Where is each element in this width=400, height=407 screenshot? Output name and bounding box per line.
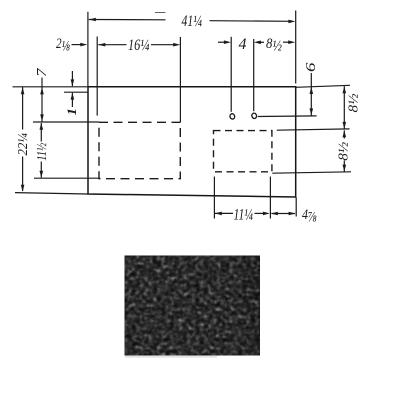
ext top-right horizontal: [296, 85, 350, 87]
dim 11 1/2: [40, 123, 44, 178]
svg-text:4⅞: 4⅞: [302, 207, 317, 225]
dim 8 1/2 right lower: [343, 130, 347, 171]
left cutout (dashed): [99, 122, 180, 178]
dim 4: [218, 40, 264, 44]
hole row line: [258, 115, 317, 118]
extension lines: [13, 11, 352, 219]
ext cutout-left down: [213, 177, 215, 219]
ext cutout-right down: [269, 177, 271, 219]
ext hole1 up: [230, 37, 232, 112]
svg-text:22¼: 22¼: [15, 133, 30, 156]
dim 11 1/4: [215, 212, 270, 216]
swatch bottom shadow: [125, 356, 217, 358]
dim 16 1/4: [98, 43, 180, 47]
ext cutout-bottom right horizontal: [272, 172, 351, 173]
dim 8 1/2 top: [283, 40, 295, 44]
dim 2 1/8: [72, 43, 88, 47]
svg-text:8½: 8½: [337, 141, 352, 161]
svg-text:6: 6: [304, 63, 319, 73]
svg-text:11½: 11½: [34, 143, 49, 161]
ext hole2 up: [253, 39, 255, 111]
ext cutout-top left horizontal: [33, 121, 99, 123]
ext cutout-bottom left horizontal: [34, 177, 100, 179]
ext panel-right up: [295, 11, 297, 84]
dim 1: [71, 71, 75, 107]
svg-text:4: 4: [239, 36, 247, 53]
ext cutout-left up: [96, 37, 98, 116]
dim 41 1/4: [89, 18, 296, 24]
dim 4 7/8: [271, 212, 296, 216]
hole circle 1: [229, 113, 235, 120]
dim 22 1/4: [21, 87, 25, 192]
stray mark above 41 1/4 line: [155, 11, 166, 13]
material swatch: [125, 256, 261, 356]
svg-text:8½: 8½: [347, 93, 362, 113]
svg-text:7: 7: [35, 67, 50, 77]
inner line 1in below top: [64, 91, 88, 93]
ext bottom-left horizontal: [15, 193, 88, 194]
right cutout (dashed): [214, 131, 272, 172]
ext top-left horizontal: [13, 86, 89, 88]
svg-text:41¼: 41¼: [182, 13, 203, 30]
svg-text:16¼: 16¼: [128, 37, 150, 54]
ext cutout-top right horizontal: [277, 129, 350, 130]
hole circle 2: [251, 113, 257, 120]
svg-text:11¼: 11¼: [234, 207, 254, 224]
svg-text:2⅛: 2⅛: [56, 36, 70, 55]
ext panel-right down: [295, 198, 297, 217]
dim 7: [40, 78, 44, 122]
ext cutout-right up: [179, 37, 181, 122]
ext panel-left up: [87, 12, 89, 87]
svg-text:1: 1: [64, 108, 79, 116]
panel outline: [88, 87, 296, 197]
dim 8 1/2 right upper: [343, 86, 347, 129]
svg-text:8½: 8½: [266, 36, 282, 54]
dim 6: [310, 73, 314, 116]
